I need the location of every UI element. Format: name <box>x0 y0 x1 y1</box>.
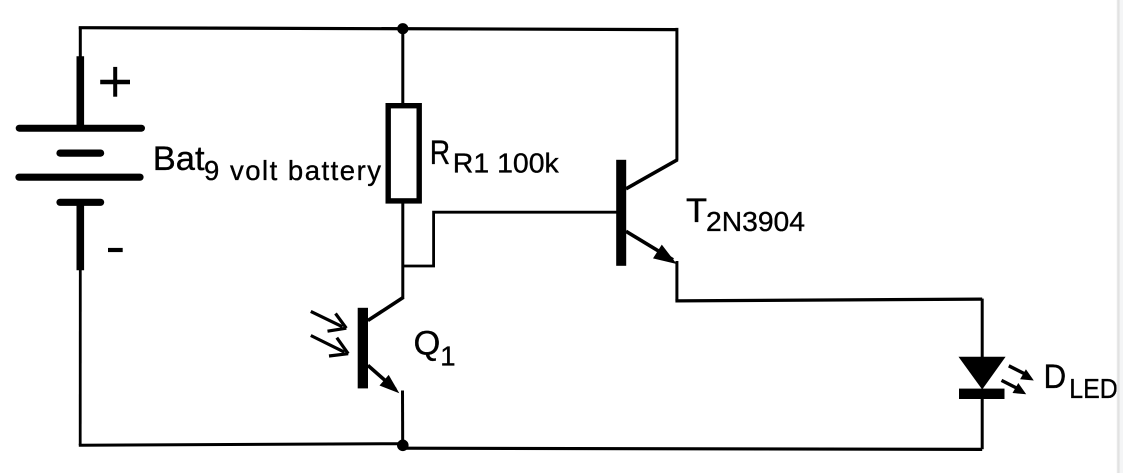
LED light arrow 1 <box>1009 366 1034 381</box>
svg-text:T: T <box>686 192 707 230</box>
svg-text:2N3904: 2N3904 <box>706 206 805 237</box>
scrollbar track <box>1117 0 1123 473</box>
wire battery - drop <box>79 267 82 445</box>
wire T emitter drop <box>675 261 678 301</box>
wire bottom rail right (node B to LED) <box>403 448 982 449</box>
LED light arrow 2 <box>1002 380 1027 394</box>
transistor T emitter diagonal <box>626 231 673 259</box>
svg-text:LED: LED <box>1069 373 1118 404</box>
wire LED cathode drop to bottom rail <box>981 398 984 449</box>
LED D triangle (anode) <box>959 357 1006 390</box>
phototransistor Q1 base bar <box>358 308 368 389</box>
node A junction dot (top) <box>397 23 408 34</box>
svg-text:R: R <box>430 134 450 172</box>
battery plate short lower <box>60 199 101 206</box>
transistor T collector diagonal <box>626 160 678 189</box>
phototransistor Q1 collector diagonal <box>368 297 404 320</box>
transistor T base bar <box>616 160 626 266</box>
resistor R1 body <box>388 106 419 201</box>
battery Bat negative terminal stub <box>77 203 85 270</box>
battery Bat positive terminal stub <box>77 56 85 127</box>
wire resistor bottom to Q1 collector <box>401 203 404 299</box>
phototransistor Q1 emitter diagonal <box>368 365 396 389</box>
wire node A to resistor top <box>401 29 404 105</box>
svg-text:Bat: Bat <box>153 140 205 178</box>
node B junction dot (bottom) <box>397 440 409 452</box>
battery minus sign <box>108 248 123 252</box>
wire base tap (resistor leg to T base) <box>403 212 618 266</box>
battery plate long top <box>19 125 141 132</box>
phototransistor Q1 emitter arrowhead <box>380 375 400 393</box>
wire top rail (battery + to T collector corner) <box>79 28 677 30</box>
svg-text:1: 1 <box>440 341 455 372</box>
wire T collector drop from top rail <box>675 28 678 161</box>
battery plate short upper <box>60 150 101 157</box>
wire LED anode drop <box>981 299 984 358</box>
svg-text:9 volt battery: 9 volt battery <box>204 155 381 186</box>
svg-text:D: D <box>1044 358 1067 396</box>
transistor T emitter arrowhead <box>653 245 677 264</box>
battery plus sign <box>100 67 130 97</box>
wire T emitter to LED horizontal <box>675 299 982 301</box>
scrollbar thumb line <box>1117 0 1119 473</box>
phototransistor Q1 light arrow 2 <box>311 336 348 357</box>
svg-text:R1 100k: R1 100k <box>453 148 559 179</box>
phototransistor Q1 light arrow 1 <box>311 311 347 331</box>
wire bottom rail left (battery - to node B) <box>79 444 403 446</box>
svg-text:Q: Q <box>414 325 441 363</box>
LED D cathode bar <box>959 389 1005 399</box>
battery plate long bottom <box>19 174 140 181</box>
wire Q1 emitter drop to node B <box>401 391 404 446</box>
wire battery + vertical stub to top rail <box>79 27 82 59</box>
